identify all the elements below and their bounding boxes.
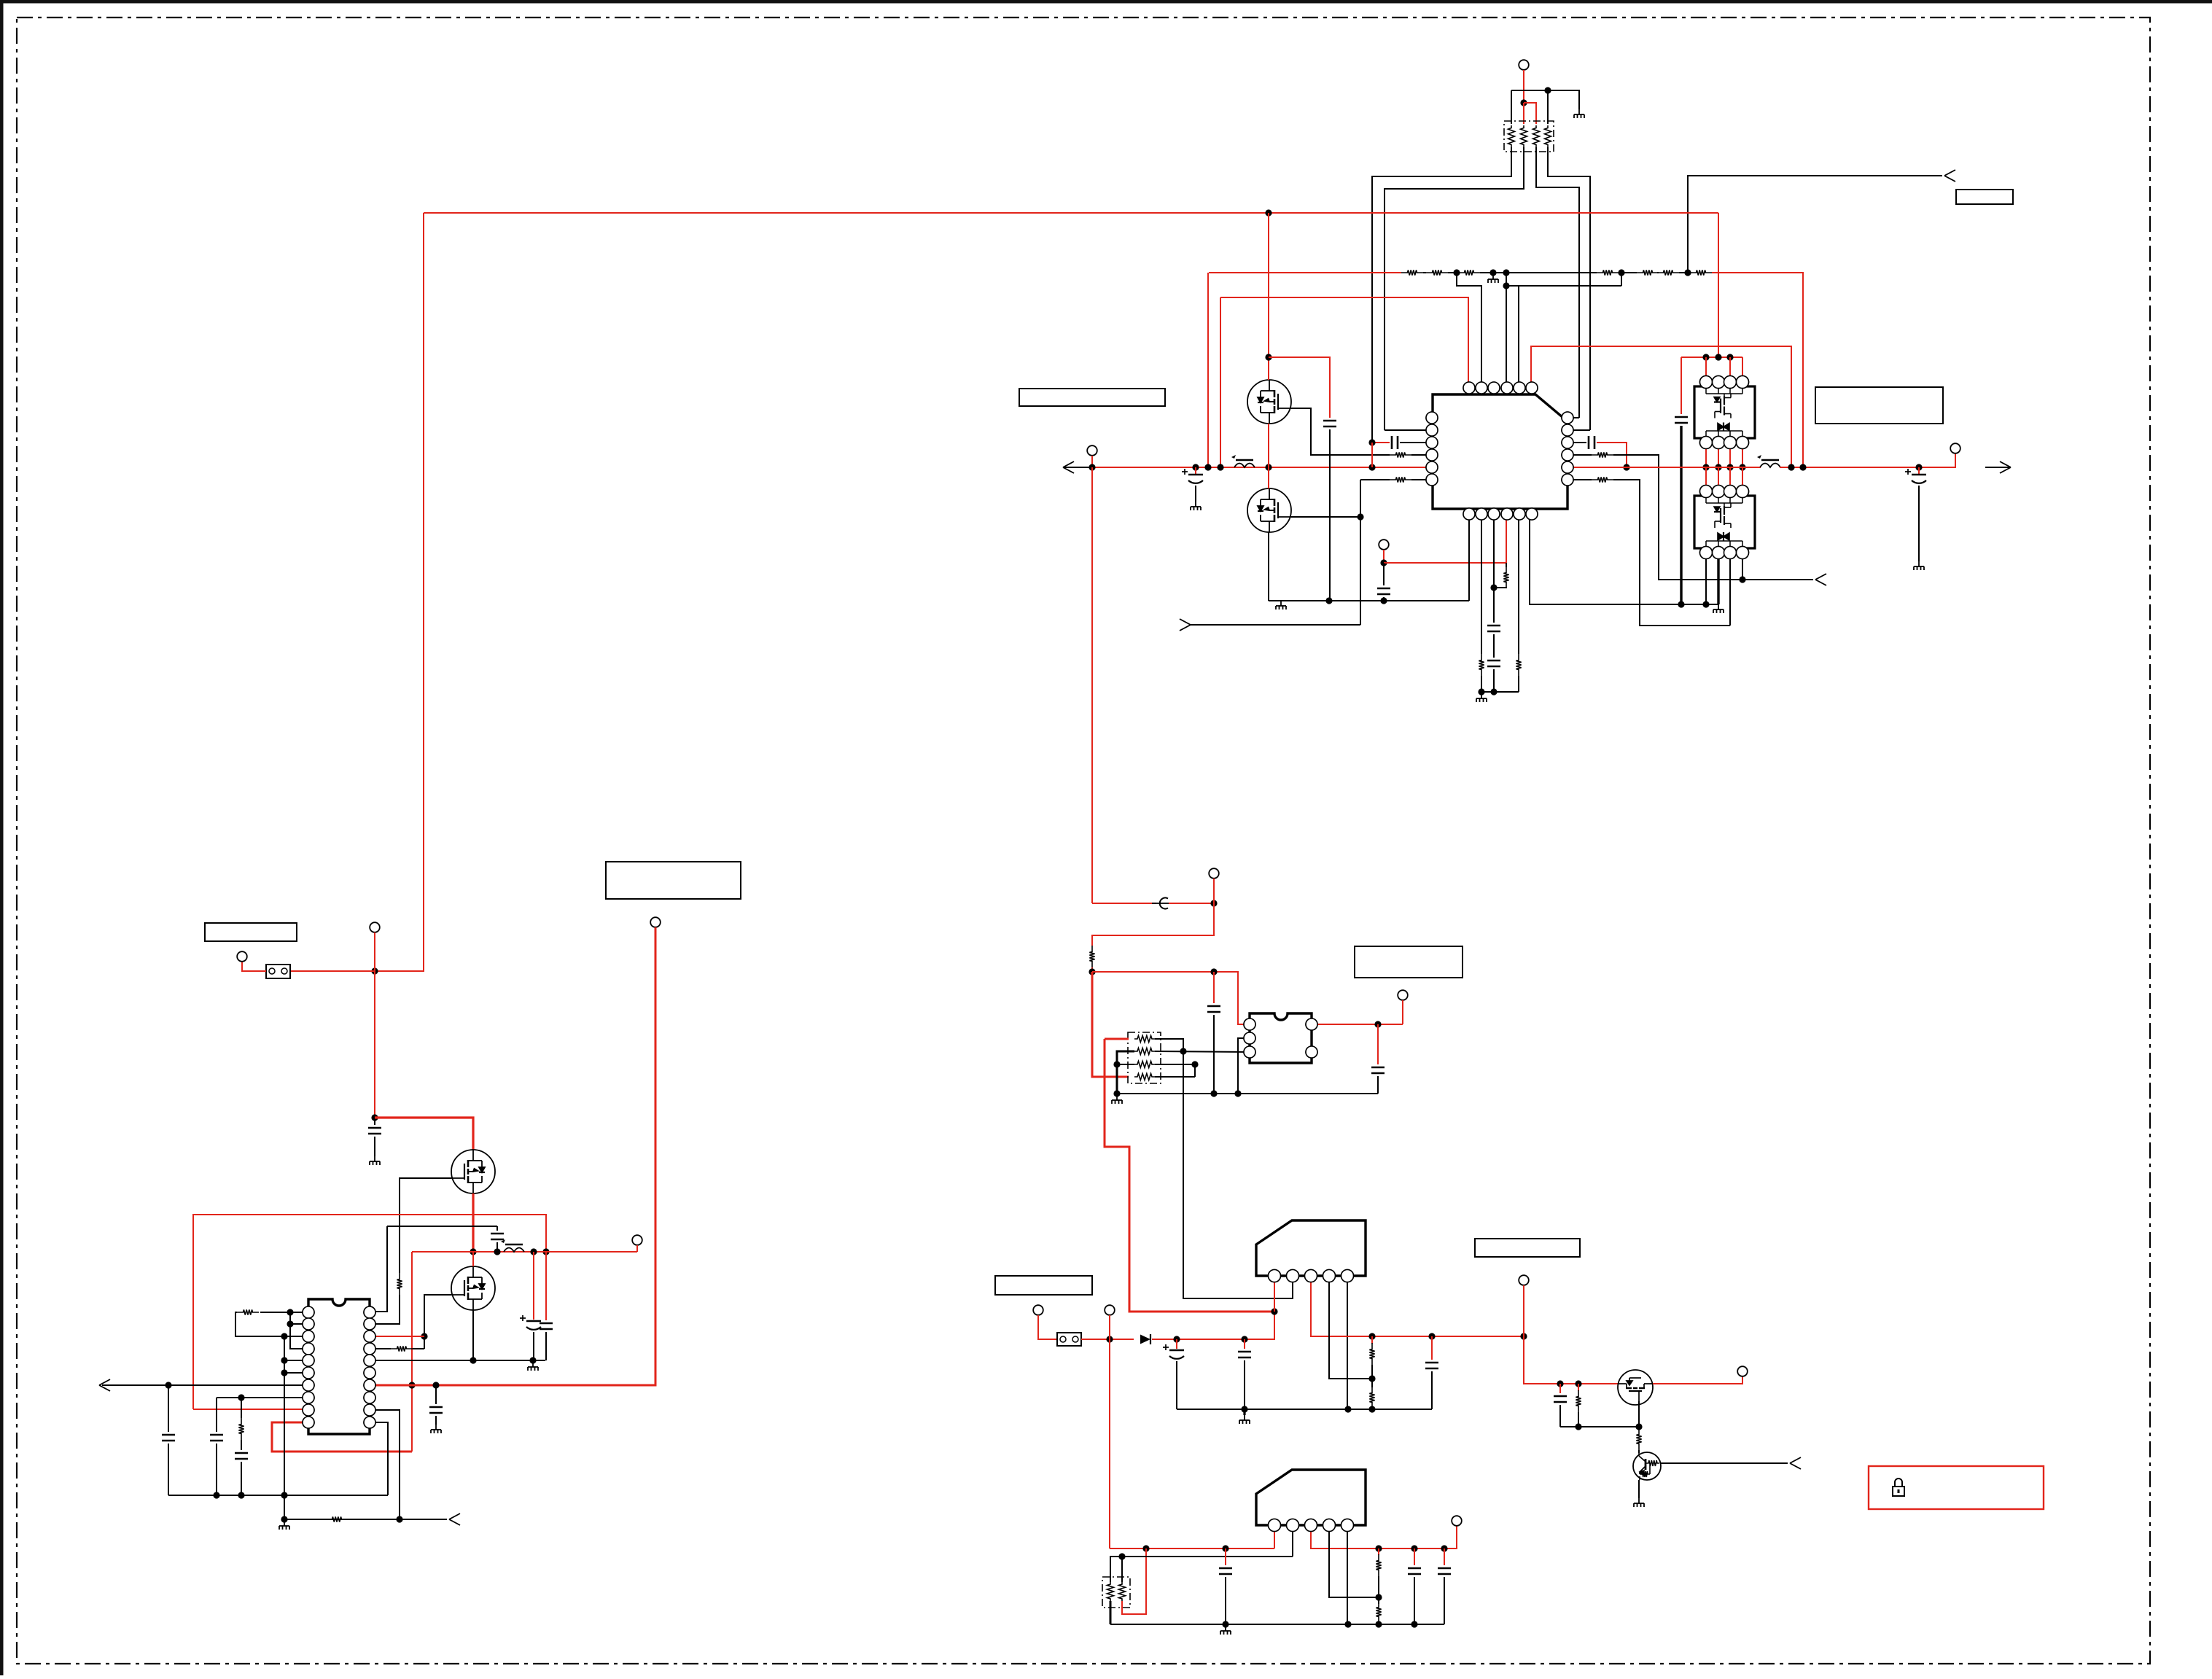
U5 right pins (1306, 1018, 1317, 1030)
inductor FB1 bead (1234, 464, 1255, 468)
wire L7 row to arrow (102, 1384, 308, 1386)
junction (1368, 464, 1375, 470)
ground (1914, 561, 1924, 570)
U1 left pins (1426, 412, 1438, 424)
wire U7 pin2 stub (1292, 1525, 1293, 1557)
diode D1 (1140, 1335, 1150, 1344)
transistor Q1 nmos (1247, 380, 1291, 424)
junction (1726, 354, 1733, 360)
capacitor C5 series (1588, 436, 1590, 449)
wire RN2b right to U5 pin L3 (1155, 1051, 1250, 1052)
label box B8 (1956, 190, 2013, 204)
junction (1799, 464, 1806, 470)
junction (1265, 464, 1271, 470)
wire divider mid (1371, 1365, 1373, 1387)
wire Q2 drain from bus (1268, 467, 1269, 488)
junction (1684, 269, 1691, 276)
wire b5 chain (1518, 520, 1519, 654)
wire (1657, 272, 1659, 273)
transistor inside U3 (1714, 503, 1731, 541)
junction (1739, 464, 1745, 470)
wire R4 row to lower arrow (1613, 455, 1813, 580)
wire T8 stub (636, 1245, 638, 1252)
junction (1715, 354, 1721, 360)
wire row red tail (1712, 273, 1803, 467)
wire VOUT bus (1780, 453, 1955, 467)
junction (1788, 464, 1794, 470)
wire RN1 pin2 red stub (1523, 103, 1524, 124)
wire VIN top bus (424, 212, 1718, 214)
ground (279, 1521, 289, 1530)
U6 pins (1269, 1270, 1281, 1282)
wire H2 left drop (411, 1252, 413, 1452)
resistor row R1A feed (1209, 272, 1401, 273)
wire Q1 source to bus (1268, 424, 1269, 467)
capacitor C1 polarized input (1195, 467, 1196, 474)
junction (1265, 354, 1271, 360)
wire L6 row (284, 1372, 308, 1374)
junction (1344, 1406, 1351, 1412)
label box B7 (1475, 1239, 1580, 1257)
wire U2 feeder risers (1705, 357, 1707, 376)
wire to Q6 (1638, 1450, 1640, 1453)
ground (1276, 601, 1286, 609)
junction (1503, 269, 1509, 276)
wire gnd row from U4 pin R5 (370, 1360, 545, 1361)
wire U4 pin L10 wrap red (272, 1422, 412, 1452)
wire sense line to arrow (1191, 624, 1360, 626)
wire U7 left rail red (1110, 1548, 1274, 1549)
junction (1739, 576, 1745, 583)
junction (1113, 1090, 1120, 1096)
wire comp to b3 node (1494, 588, 1506, 588)
junction (281, 1369, 287, 1376)
wire U4 pin R4 row (370, 1348, 391, 1349)
wire divider low (1371, 1408, 1373, 1409)
junction (1375, 1594, 1382, 1600)
wire VIN bus left segment (1092, 467, 1432, 468)
junction (1715, 464, 1721, 470)
junction (1623, 464, 1629, 470)
junction (1368, 439, 1375, 445)
wire RN1d lead down-right (1548, 147, 1590, 430)
junction (1180, 1048, 1186, 1054)
terminal T8 (632, 1235, 642, 1245)
wire Q2 gate (1291, 516, 1360, 518)
wire (1423, 272, 1426, 273)
wire b6 to right gnd row (1530, 520, 1718, 604)
terminal T11 (1105, 1305, 1115, 1315)
wire U1 R3 cap row (1568, 442, 1586, 443)
terminal T6 (237, 951, 247, 962)
wire gate res to U4 pin R2 (370, 1295, 400, 1324)
wire to U1 pin L4 (1411, 454, 1432, 456)
ground (1476, 693, 1487, 702)
junction (1368, 1375, 1375, 1382)
terminal T14 (1737, 1366, 1748, 1376)
wire Q1 drain (1268, 213, 1269, 380)
wire EN red (1384, 562, 1506, 564)
wire RN2 node long drop to U6 pin2 (1183, 1051, 1293, 1298)
ic pin circles overlay (1463, 382, 1475, 394)
wire U5 out red (1312, 1024, 1403, 1025)
junction (281, 1333, 287, 1339)
resistor RN1c (1533, 125, 1540, 147)
resistor R1B (1426, 270, 1448, 275)
capacitor C6 (1487, 625, 1500, 627)
ic U3 dual-fet body (1700, 486, 1713, 498)
wire U3 bottom pin2 thick gnd (1717, 558, 1719, 604)
transistor Q2 nmos (1247, 488, 1291, 532)
junction (421, 1333, 427, 1339)
wire U6 pin1 stub (1274, 1276, 1275, 1312)
U1 right pins (1562, 412, 1573, 424)
resistor RN2c (1134, 1061, 1155, 1068)
U1 bottom pins (1463, 508, 1475, 520)
wire gate riser x1866 (1360, 480, 1361, 625)
junction (1265, 209, 1271, 216)
junction (1520, 1333, 1527, 1339)
wire RN1a lead down-left (1372, 147, 1511, 443)
lock icon (1893, 1479, 1904, 1496)
junction (1490, 584, 1497, 591)
junction (1089, 968, 1095, 975)
capacitor C17 chain (241, 1440, 242, 1450)
wire VIN drop from top bus (375, 213, 424, 971)
capacitor C21 in (1244, 1339, 1245, 1349)
wire arrow tail (1063, 467, 1092, 468)
transistor Q6 digital bjt (1633, 1452, 1661, 1480)
wire U3 bottom pin1 to gnd row (1705, 558, 1707, 604)
transistor Q4 pmos (451, 1266, 495, 1310)
wire red riser x1657 (1207, 273, 1209, 467)
junction (1142, 1545, 1149, 1551)
wire red U-loop to RN3 (1122, 1549, 1146, 1614)
ic U6 regulator body (1256, 1220, 1366, 1276)
resistor RN3b (1119, 1582, 1126, 1601)
junction (470, 1248, 476, 1255)
wire to node (1091, 967, 1093, 972)
wire red U1 pin t1 (1220, 297, 1468, 382)
junction (1380, 597, 1387, 604)
wire loop (235, 1312, 284, 1336)
wire row to right resistors (1480, 272, 1597, 273)
junction (1173, 1336, 1180, 1342)
junction (1222, 1621, 1228, 1627)
wire T9 stub (1213, 879, 1215, 903)
junction (1489, 269, 1496, 276)
junction (1490, 688, 1497, 695)
capacitor C18 out (1377, 1024, 1379, 1064)
capacitor C25 out (1414, 1549, 1415, 1565)
wire L3 row (284, 1336, 308, 1337)
junction (1344, 1621, 1351, 1627)
resistor network RN3 box (1102, 1577, 1130, 1608)
wire to ground (1548, 90, 1579, 109)
junction (1557, 1380, 1563, 1387)
wire RN1 pin4 top lead (1547, 90, 1549, 124)
ground (1191, 502, 1201, 510)
wire Q2 source to gnd rail (1268, 532, 1269, 601)
wire Q3 to Q4 chain (472, 1193, 474, 1252)
wire gate row (1560, 1426, 1639, 1427)
wire T12 stub (1038, 1315, 1057, 1339)
resistor RN1a (1508, 125, 1515, 147)
transistor inside U2 (1714, 394, 1731, 432)
wire to U1 pin L6 (1411, 479, 1432, 480)
junction (1374, 1021, 1381, 1027)
wire U1 R2 row (1568, 429, 1590, 431)
resistor R2 gate (1390, 452, 1411, 457)
label box B5 (1355, 946, 1463, 978)
capacitor C19 in (1213, 972, 1215, 1003)
ground (1239, 1415, 1250, 1424)
wire L1 row (260, 1312, 308, 1313)
capacitor C7 (1487, 660, 1500, 662)
capacitor C2 (1323, 420, 1336, 422)
wire to Q3 drain (375, 1118, 473, 1150)
transistor Q5 pass fet (1618, 1370, 1653, 1405)
junction (238, 1492, 244, 1498)
label box B4 (606, 862, 741, 899)
wire low2 (1378, 1623, 1379, 1624)
gnd rail U5 (1117, 1093, 1378, 1094)
wire b1 to gnd rail (1468, 520, 1470, 601)
ic U4 body (308, 1299, 370, 1434)
wire aux z-bend (1092, 903, 1214, 946)
junction (494, 1248, 500, 1255)
junction (1204, 464, 1211, 470)
junction (281, 1357, 287, 1363)
capacitor C20 polarized in (1176, 1339, 1177, 1349)
wire H1 feedback upper (193, 1215, 546, 1409)
capacitor C12 polarized out (533, 1252, 534, 1320)
wire node to U5 pin L1 (1092, 972, 1250, 1024)
resistor network RN2 box (1128, 1032, 1161, 1083)
wire U3 bottom pin4 to fb row (1742, 558, 1743, 580)
ic U7 regulator body (1256, 1470, 1366, 1525)
resistor R1E (1637, 270, 1659, 275)
junction (1357, 513, 1363, 520)
wire U6 pin2 stub (1292, 1276, 1293, 1298)
wire Q5 gate drop (1638, 1401, 1640, 1427)
terminal T3 output (1950, 443, 1960, 453)
wire to Q5 drain (1524, 1336, 1618, 1384)
sheet pin arrow (ctrl in) (1790, 1457, 1801, 1463)
junction (1089, 464, 1095, 470)
junction (432, 1382, 439, 1388)
ground (528, 1362, 538, 1371)
wire VIN drop to aux (1091, 467, 1093, 903)
junction (1210, 1090, 1217, 1096)
wire aux top row right (1169, 903, 1214, 904)
junction (1575, 1380, 1581, 1387)
junction (1635, 1423, 1642, 1430)
label box B2 (1019, 389, 1165, 406)
ic U5 body (1250, 1013, 1312, 1063)
wire T5 stub (374, 932, 375, 971)
junction (470, 1357, 476, 1363)
wire U6 pin4 fb (1329, 1276, 1372, 1379)
junction (1411, 1621, 1417, 1627)
wire R10pin to rail1 (370, 1422, 388, 1495)
wire U1 R6 row (1568, 479, 1592, 480)
sheet pin arrow (input) (1944, 170, 1955, 176)
junction (1441, 1545, 1447, 1551)
wire U7 pin1 stub (1274, 1525, 1275, 1549)
gnd rail U7 (1110, 1624, 1444, 1625)
resistor R6 b2 (1479, 654, 1484, 676)
U3 internal ties (1705, 497, 1707, 503)
U2 internal ties (1705, 388, 1707, 394)
wire SW bus mid (1568, 467, 1761, 468)
wire riser to U1 pin t2 (1457, 273, 1481, 382)
junction (530, 1248, 537, 1255)
wire T10 stub (1402, 1000, 1403, 1024)
wire riser from row (1621, 273, 1622, 286)
capacitor C10 (374, 1118, 375, 1125)
junction (1368, 1406, 1375, 1412)
junction (213, 1492, 219, 1498)
resistor R15 divider top (1371, 1336, 1373, 1344)
junction (1217, 464, 1223, 470)
resistor R22 divider bottom (1376, 1601, 1381, 1623)
capacitor C9 polarized output (1918, 467, 1920, 474)
wire VIN bus corner down to U2 feeder (1718, 213, 1719, 357)
resistor RN2d (1134, 1074, 1155, 1080)
wire U2 bottom stubs to bus (1705, 448, 1707, 467)
capacitor C22 out (1431, 1336, 1433, 1360)
wire b2 low (1481, 676, 1482, 692)
capacitor C8 (1675, 416, 1688, 418)
wire (1493, 634, 1495, 658)
terminal T4 (1087, 445, 1097, 456)
wire bottom tie (1481, 691, 1519, 693)
wire U6 pin5 gnd (1347, 1276, 1348, 1409)
resistor R16 divider bottom (1369, 1387, 1374, 1409)
resistor R11 loop (237, 1309, 259, 1314)
junction (1411, 1545, 1417, 1551)
U3 body brackets (1694, 496, 1702, 548)
wire b5 low (1518, 676, 1519, 692)
ground (1574, 109, 1584, 118)
wire red riser x1674 (1220, 297, 1221, 467)
junction (1520, 99, 1527, 106)
capacitor C15 chain (168, 1385, 169, 1432)
junction (396, 1516, 402, 1522)
junction (1191, 1061, 1198, 1067)
junction (165, 1382, 171, 1388)
wire (1619, 272, 1637, 273)
label box B6 (995, 1276, 1092, 1295)
resistor R8 b5 (1516, 654, 1521, 676)
resistor RN1b (1521, 125, 1527, 147)
junction (1726, 464, 1733, 470)
wire feed down to Q3 (374, 971, 375, 1118)
wire to fuse (290, 970, 375, 972)
junction (542, 1248, 549, 1255)
wire RN1c lead down-right (1536, 147, 1579, 418)
locked annotation box (1869, 1466, 2044, 1509)
resistor R1A (1401, 270, 1423, 275)
resistor R5 (1592, 477, 1613, 482)
wire r17 low (1578, 1412, 1579, 1427)
resistor R1C (1458, 270, 1480, 275)
wire Q4 drain (472, 1252, 474, 1266)
junction (1241, 1406, 1247, 1412)
junction (1192, 464, 1199, 470)
fuse F1 (266, 965, 290, 978)
U1 top pins (1463, 382, 1475, 394)
U2 body brackets (1694, 386, 1702, 438)
wire Q6 emitter gnd (1638, 1480, 1640, 1498)
wire C4 to pin L3 (1400, 442, 1432, 443)
wire b3 chain upper (1493, 520, 1495, 623)
resistor RN2b (1134, 1048, 1155, 1055)
junction (1702, 354, 1709, 360)
wire U2 top feeder red (1681, 357, 1742, 358)
resistor R1D (1597, 270, 1619, 275)
terminal T10 (1398, 990, 1408, 1000)
wire U7 out rail red (1311, 1525, 1457, 1549)
wire U3 top stubs from bus (1705, 467, 1707, 486)
U4 right pins (364, 1306, 375, 1318)
wire RN2c left (1117, 1064, 1134, 1065)
capacitor C16 chain (216, 1398, 217, 1432)
resistor R21 divider top (1378, 1549, 1379, 1555)
junction (371, 1114, 378, 1121)
capacitor C14 (435, 1385, 437, 1404)
junction (1375, 1621, 1382, 1627)
resistor R9 gate (397, 1273, 402, 1295)
wire C5 red to bus (1597, 443, 1627, 467)
wire T13 stub (1523, 1285, 1524, 1336)
terminal T15 (1452, 1516, 1462, 1526)
net arrow out (1985, 467, 2011, 468)
resistor R10 (391, 1346, 413, 1351)
wire mode-select to sheet pin (1688, 176, 1942, 273)
resistor R13 (326, 1516, 348, 1522)
U7 pins (1269, 1519, 1281, 1532)
wire Q6 base line to arrow (1661, 1462, 1788, 1464)
U4 left pins (303, 1306, 314, 1318)
wire RN3a bottom to gnd rail (1110, 1601, 1112, 1624)
wire divider mid2 (1378, 1576, 1379, 1604)
wire Q1 gate (1291, 408, 1390, 455)
junction (1618, 269, 1624, 276)
junction (1503, 282, 1509, 289)
wire Q3 gate (400, 1178, 451, 1273)
resistor R1F (1657, 270, 1679, 275)
junction (238, 1394, 244, 1401)
resistor R4 (1592, 452, 1613, 457)
resistor R7 comp (1506, 563, 1507, 567)
sheet pin arrow (VIN in) (1063, 461, 1074, 467)
junction (1118, 1553, 1125, 1559)
wire Q1 bypass tee (1269, 357, 1330, 418)
label box B3 (205, 923, 297, 941)
wire red U1 pin t6 feed (1531, 346, 1791, 467)
wire x390 vertical (284, 1336, 285, 1519)
ground (1634, 1498, 1644, 1507)
gnd rail U6 (1177, 1409, 1432, 1410)
wire L5 row (284, 1360, 308, 1361)
inductor L3 bead (504, 1248, 524, 1253)
sheet pin arrow (PG out) (1180, 619, 1191, 625)
resistor RN2a (1134, 1036, 1155, 1043)
junction (1210, 968, 1217, 975)
ground (1713, 604, 1724, 613)
